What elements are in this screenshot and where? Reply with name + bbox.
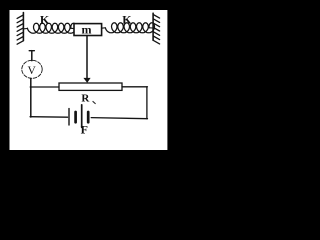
wire R to right rail (122, 86, 147, 88)
rheostat R box (59, 83, 122, 90)
right rail wire (146, 87, 148, 119)
svg-text:R: R (81, 92, 90, 104)
white figure area (10, 10, 168, 150)
svg-text:F: F (81, 123, 88, 137)
svg-text:K: K (40, 13, 50, 27)
battery plate long 1 (68, 109, 70, 125)
svg-text:K: K (122, 13, 132, 27)
wire from mass down to wiper arrow (86, 36, 88, 79)
battery plate long 2 (81, 105, 83, 128)
wiper arrowhead (83, 78, 90, 83)
right wall (152, 13, 154, 40)
mass box m (74, 24, 102, 36)
left rail wire (meter lead down) (30, 78, 32, 117)
battery plate short 2 (87, 112, 90, 122)
bottom rail wire right (91, 118, 147, 119)
spring K (right) (102, 27, 105, 29)
stray mark near R (93, 101, 96, 104)
svg-text:m: m (82, 23, 92, 37)
bottom rail wire left (30, 116, 68, 119)
meter top stub (31, 51, 33, 61)
spring K (left) (24, 28, 27, 30)
battery plate short 1 (74, 112, 77, 122)
meter top tick (29, 50, 34, 52)
left wall (22, 13, 24, 41)
wire meter to R (left) (30, 86, 59, 88)
svg-text:V: V (28, 65, 37, 77)
voltmeter circle (22, 60, 42, 78)
